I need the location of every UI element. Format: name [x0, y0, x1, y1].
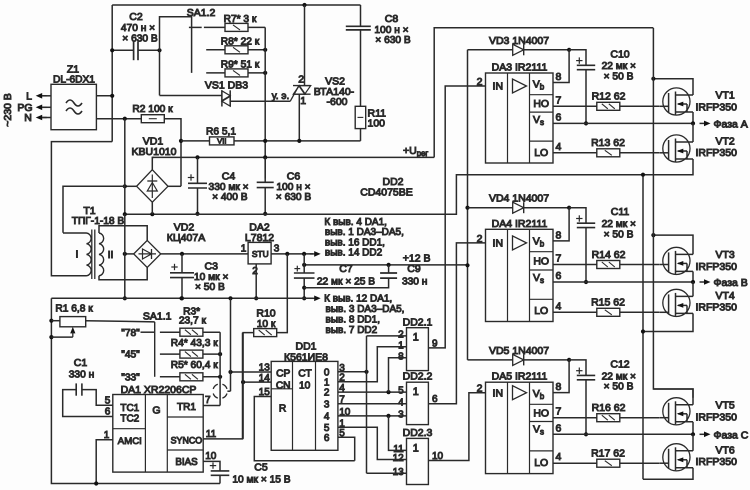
wire bridge left vertex — [125, 185, 137, 187]
resistor R7* 3k — [204, 26, 225, 28]
wire secondary top lead — [99, 226, 147, 241]
svg-text:VT3: VT3 — [716, 249, 735, 261]
node C7/C9 bottom link — [302, 286, 306, 290]
svg-text:CD4075BE: CD4075BE — [360, 187, 413, 199]
svg-text:22 мк ×: 22 мк × — [602, 371, 636, 382]
svg-text:1: 1 — [300, 95, 306, 107]
svg-text:3: 3 — [398, 410, 404, 421]
svg-text:выв. 7 DD2: выв. 7 DD2 — [326, 325, 378, 336]
node return rail / VT4 source — [641, 329, 645, 333]
svg-text:8: 8 — [556, 229, 562, 241]
wire out0 riser to DD2.1 pin2 and DD2.3 pin13 — [366, 336, 368, 473]
node C2 right — [157, 48, 161, 52]
svg-text:15: 15 — [259, 387, 271, 398]
svg-text:Фаза A: Фаза A — [714, 118, 748, 130]
svg-text:R17 62: R17 62 — [591, 448, 625, 460]
wire +Ureg DC bus — [152, 156, 434, 158]
svg-text:LO: LO — [534, 457, 548, 469]
svg-text:2: 2 — [252, 266, 258, 277]
node R8 bus — [263, 48, 267, 52]
svg-text:6: 6 — [556, 111, 562, 123]
svg-text:8: 8 — [556, 71, 562, 83]
svg-text:DD2.3: DD2.3 — [403, 427, 433, 439]
svg-text:"33": "33" — [121, 372, 140, 383]
svg-text:10: 10 — [205, 451, 217, 462]
node C12/Vs — [584, 432, 588, 436]
transistor VT3 IRFP350 high side — [663, 247, 690, 274]
node phase A — [691, 121, 695, 125]
capacitor C5 10uF 15V — [211, 470, 230, 472]
capacitor C11 22uF 50V — [569, 208, 586, 224]
wire out5 pin1 to DD2.3 pin12 — [338, 427, 407, 459]
wire out2 riser to DD2.1 pin8 — [389, 358, 407, 392]
svg-text:C1: C1 — [74, 357, 88, 369]
svg-text:2: 2 — [398, 330, 404, 341]
net arrow phase A — [700, 122, 708, 124]
svg-text:8: 8 — [556, 381, 562, 393]
node R6/triac — [297, 139, 301, 143]
svg-text:23,7 к: 23,7 к — [179, 315, 207, 326]
wire VT5 source to phase — [692, 422, 694, 435]
svg-text:R2 100 к: R2 100 к — [132, 104, 173, 115]
svg-text:× 630 В: × 630 В — [276, 192, 312, 203]
capacitor C10 22uF 50V — [569, 50, 586, 66]
svg-text:× 630 В: × 630 В — [375, 35, 411, 46]
svg-text:HO: HO — [533, 256, 549, 268]
svg-text:KBU1010: KBU1010 — [132, 146, 177, 158]
node VD3/Vb — [567, 48, 571, 52]
wire Vs line phase B — [553, 281, 693, 283]
wire source return rail — [642, 175, 644, 480]
svg-text:R15 62: R15 62 — [591, 297, 625, 309]
svg-text:C12: C12 — [610, 358, 629, 370]
node N-bus top — [123, 117, 127, 121]
svg-text:Фаза C: Фаза C — [714, 429, 749, 441]
svg-text:SA1.1: SA1.1 — [143, 311, 172, 323]
wire VT6 source to return — [643, 468, 693, 480]
transistor VT1 IRFP350 high side — [663, 88, 690, 115]
node out0 — [364, 370, 368, 374]
svg-text:2: 2 — [298, 74, 304, 86]
capacitor C12 22uF 50V — [569, 360, 586, 376]
transformer secondary II — [99, 233, 104, 276]
wire Z1 pin L arrow — [39, 95, 47, 97]
transistor VT2 IRFP350 low side — [663, 135, 690, 162]
wire test point to CP riser — [227, 390, 230, 392]
node C2 left — [110, 48, 114, 52]
wire out4 riser to DD2.3 pin11 — [389, 416, 407, 451]
node drain rail 4 — [651, 233, 655, 237]
wire R-select bus through test point — [219, 332, 221, 405]
svg-text:IN: IN — [493, 238, 504, 250]
svg-text:G: G — [152, 404, 160, 416]
svg-text:2: 2 — [477, 76, 483, 88]
wire primary bottom lead — [51, 275, 86, 277]
svg-text:C3: C3 — [205, 261, 219, 273]
wire N-bus lower vertical — [124, 214, 126, 298]
svg-text:10: 10 — [299, 380, 311, 391]
svg-text:100 н ×: 100 н × — [276, 182, 310, 193]
test point connector — [213, 384, 227, 398]
wire R2 right to bridge AC2 — [164, 119, 181, 187]
wire R11 bottom to R6 line — [360, 129, 362, 141]
node Z1 top output — [110, 94, 114, 98]
wire R10 left — [243, 333, 254, 439]
wire +12 feed riser for VD3-VD5 — [467, 50, 469, 360]
wire Vb pin8 riser — [553, 50, 569, 83]
wire CP riser — [230, 298, 232, 391]
svg-text:CT: CT — [298, 369, 312, 380]
wire VT1 drain — [653, 79, 693, 95]
svg-text:Фаза B: Фаза B — [714, 277, 748, 289]
component Z1 DL-6DX1 mains filter — [51, 84, 96, 129]
svg-text:4: 4 — [556, 451, 562, 463]
svg-text:5: 5 — [398, 386, 404, 397]
svg-text:BIAS: BIAS — [175, 457, 198, 468]
wire +Ureg riser to top — [434, 28, 653, 158]
node GND/CP riser — [228, 296, 232, 300]
wire out3 pin7 to DD2.2 pin4 — [338, 403, 407, 405]
svg-text:22 мк × 25 В: 22 мк × 25 В — [317, 277, 375, 288]
svg-text:VT5: VT5 — [716, 399, 735, 411]
wire VT4 source to return — [643, 313, 693, 331]
svg-text:R: R — [279, 404, 286, 415]
node top rail / triac riser — [302, 3, 306, 7]
wire secondary bottom lead — [99, 267, 147, 279]
wire VT1 source to phase — [692, 112, 694, 123]
wire DA2 gnd pin — [255, 264, 257, 298]
wire C1 right to pin5 — [82, 390, 113, 406]
svg-text:C10: C10 — [610, 48, 629, 60]
node +12 feed / VD4 — [465, 206, 469, 210]
wire SYNCO pin11 riser — [203, 333, 242, 439]
node GND/R3bus — [179, 296, 183, 300]
node VD5/Vb — [567, 358, 571, 362]
svg-text:12: 12 — [393, 453, 405, 464]
wire R-bus vertical x=265 — [264, 27, 266, 178]
wire drain rail right side — [653, 28, 693, 398]
svg-text:IRFP350: IRFP350 — [696, 261, 738, 273]
svg-text:6: 6 — [105, 407, 111, 418]
svg-text:330 н: 330 н — [69, 369, 94, 380]
svg-text:10 мк × 15 В: 10 мк × 15 В — [232, 474, 290, 485]
svg-text:IN: IN — [493, 81, 504, 93]
wire VD2 right to DA2 — [161, 253, 248, 255]
wire VT2 drain to phase — [692, 123, 694, 142]
svg-text:1: 1 — [241, 244, 247, 255]
svg-text:470 н ×: 470 н × — [121, 23, 155, 34]
wire C1 left to pin6 — [63, 390, 113, 417]
wire VT2 source to return — [643, 159, 693, 175]
svg-text:VT2: VT2 — [716, 136, 735, 148]
node out4 — [386, 414, 390, 418]
svg-text:TR1: TR1 — [177, 402, 196, 413]
triac VS2 BTA140-600 — [304, 5, 306, 86]
node drain rail 3 — [651, 77, 655, 81]
svg-text:× 630 В: × 630 В — [122, 34, 158, 45]
wire +12V line — [304, 264, 467, 266]
svg-text:2: 2 — [324, 388, 330, 399]
svg-text:~230 В: ~230 В — [2, 93, 14, 127]
svg-text:К выв. 12 DA1,: К выв. 12 DA1, — [324, 294, 392, 305]
wire CN pin14 — [243, 381, 271, 383]
node N-bus / VD1 — [123, 184, 127, 188]
svg-text:LO: LO — [534, 305, 548, 317]
node C3 GND — [180, 296, 184, 300]
svg-text:7: 7 — [556, 406, 562, 418]
svg-text:VS1 DB3: VS1 DB3 — [205, 79, 248, 91]
svg-text:"45": "45" — [121, 350, 140, 361]
svg-text:SYNCO: SYNCO — [171, 436, 203, 446]
node VD4/Vb — [567, 206, 571, 210]
svg-text:330 н: 330 н — [402, 277, 427, 288]
node +12 / C9 top — [387, 263, 391, 267]
svg-text:N: N — [24, 112, 32, 124]
svg-text:× 400 В: × 400 В — [212, 192, 248, 203]
svg-text:HO: HO — [533, 408, 549, 420]
wire VT3 drain — [653, 235, 693, 254]
svg-text:R1 6,8 к: R1 6,8 к — [55, 303, 93, 314]
capacitor C3 10uF 50V — [181, 254, 183, 273]
svg-text:R14 62: R14 62 — [592, 249, 626, 261]
capacitor C9 330n — [388, 265, 390, 273]
wire VT3 source to phase — [692, 271, 694, 282]
node C4 + — [195, 155, 199, 159]
svg-text:DD2.1: DD2.1 — [403, 317, 433, 329]
svg-text:T1: T1 — [83, 205, 95, 217]
wire out2 pin4 to DD2.2 pin5 — [338, 391, 407, 393]
svg-text:-600: -600 — [326, 96, 347, 108]
svg-text:VT1: VT1 — [716, 90, 735, 102]
node C10/Vs — [584, 121, 588, 125]
node DA2 out / C7 riser — [285, 252, 289, 256]
svg-text:22 мк ×: 22 мк × — [602, 61, 636, 72]
wire to TR1 pin7 — [203, 405, 220, 407]
resistor R8* 22k — [206, 49, 225, 51]
svg-text:R5* 60,4 к: R5* 60,4 к — [171, 360, 218, 371]
svg-text:II: II — [108, 249, 114, 261]
resistor R11 100 — [355, 106, 366, 128]
wire Z1 pin PG arrow — [39, 106, 47, 108]
svg-text:C7: C7 — [339, 263, 353, 275]
svg-text:13: 13 — [393, 467, 405, 478]
svg-text:STU: STU — [252, 249, 269, 259]
wire out4 pin10 to DD2.2 pin3 — [338, 415, 407, 417]
svg-text:VD4 1N4007: VD4 1N4007 — [489, 193, 549, 205]
wire R pin15 reset loop — [254, 397, 354, 461]
svg-text:× 50 В: × 50 В — [604, 72, 634, 83]
wire DD2.3 out to DA5 IN — [428, 393, 485, 461]
wire R10 right to +12 — [277, 254, 288, 333]
node R1 wiper — [49, 335, 53, 339]
svg-text:VD3 1N4007: VD3 1N4007 — [489, 35, 549, 47]
wire Vb pin8 riser — [553, 360, 569, 393]
svg-text:IRFP350: IRFP350 — [696, 411, 738, 423]
svg-text:1: 1 — [324, 377, 330, 388]
svg-text:2: 2 — [477, 233, 483, 245]
wire T1 primary top to N-bus — [63, 186, 125, 233]
svg-text:R16 62: R16 62 — [592, 402, 626, 414]
svg-text:7: 7 — [556, 253, 562, 265]
node C11/Vs — [584, 280, 588, 284]
node +12 feed / +12V line — [465, 263, 469, 267]
wire BIAS pin10 to C5 — [203, 461, 220, 471]
node bridge bottom — [150, 212, 154, 216]
svg-text:I: I — [76, 249, 79, 261]
wire bridge right vertex — [168, 185, 181, 187]
svg-text:R10: R10 — [256, 307, 275, 319]
svg-text:выв. 14 DD2: выв. 14 DD2 — [325, 248, 383, 259]
wire N-bus vertical — [124, 119, 126, 215]
wire left vertical to bottom rail — [51, 298, 220, 483]
svg-text:× 50 В: × 50 В — [604, 230, 634, 241]
wire left riser x=112 — [111, 5, 113, 142]
svg-text:7: 7 — [205, 395, 211, 406]
node phase B — [691, 280, 695, 284]
transformer core — [91, 230, 93, 280]
wire top rail — [112, 4, 360, 6]
svg-text:DA4 IR2111: DA4 IR2111 — [492, 218, 548, 230]
wire VT4 drain to phase — [692, 282, 694, 296]
svg-text:6: 6 — [324, 433, 330, 444]
net arrow +12V to pins — [310, 253, 318, 255]
svg-text:1: 1 — [413, 332, 419, 344]
node C4 - — [195, 212, 199, 216]
svg-text:выв. 3 DA3–DA5,: выв. 3 DA3–DA5, — [326, 304, 405, 315]
svg-text:DA5 IR2111: DA5 IR2111 — [492, 371, 548, 383]
svg-text:1: 1 — [413, 386, 419, 398]
node VD2/N-bus — [123, 252, 127, 256]
svg-text:IRFP350: IRFP350 — [696, 147, 738, 159]
svg-text:4: 4 — [324, 412, 330, 423]
svg-text:4: 4 — [556, 300, 562, 312]
wire Vb pin8 riser — [553, 208, 569, 241]
node N-bus/GND — [123, 296, 127, 300]
node R1 left — [49, 319, 53, 323]
svg-text:1: 1 — [104, 430, 110, 441]
svg-text:7: 7 — [556, 94, 562, 106]
net arrow phase B — [700, 281, 708, 283]
wire primary top lead — [63, 232, 87, 234]
node DA2 out / +12 branch — [302, 252, 306, 256]
wire DA2 output — [271, 253, 313, 255]
node DA2 gnd — [254, 296, 258, 300]
svg-text:3: 3 — [274, 244, 280, 255]
transistor VT5 IRFP350 high side — [663, 398, 690, 425]
svg-text:6: 6 — [556, 422, 562, 434]
svg-text:Z1: Z1 — [67, 64, 79, 76]
svg-text:TC1: TC1 — [120, 403, 139, 414]
svg-text:C11: C11 — [611, 206, 630, 218]
svg-text:IN: IN — [493, 387, 504, 399]
svg-text:DD2.2: DD2.2 — [403, 371, 433, 383]
node C3 top — [180, 252, 184, 256]
svg-text:R4* 43,3 к: R4* 43,3 к — [171, 338, 218, 349]
svg-text:× 50 В: × 50 В — [604, 382, 634, 393]
svg-text:КЦ407А: КЦ407А — [167, 232, 205, 244]
wire Z1 top output — [96, 95, 112, 97]
transistor VT6 IRFP350 low side — [663, 444, 690, 471]
svg-text:IRFP350: IRFP350 — [696, 301, 738, 313]
svg-text:2: 2 — [477, 383, 483, 395]
wire DD2.2 out to DA4 IN — [428, 243, 485, 404]
node C7 GND — [302, 296, 306, 300]
svg-text:C9: C9 — [407, 263, 421, 275]
net arrow phase C — [700, 433, 708, 435]
wire out0 pin3 — [338, 371, 367, 373]
svg-text:R9* 51 к: R9* 51 к — [221, 59, 260, 70]
svg-text:R13 62: R13 62 — [591, 137, 625, 149]
svg-text:IRFP350: IRFP350 — [696, 456, 738, 468]
wire diac to triac gate — [230, 100, 290, 102]
wire Z1 lower-left loop to T1 primary — [51, 142, 112, 276]
node R4/bus — [218, 352, 222, 356]
svg-text:6: 6 — [556, 270, 562, 282]
svg-text:CN: CN — [276, 380, 291, 391]
node C6/R-bus + — [263, 155, 267, 159]
node +12 / C7 top — [302, 263, 306, 267]
svg-text:DA3 IR2111: DA3 IR2111 — [492, 62, 548, 74]
svg-text:4: 4 — [556, 141, 562, 153]
svg-text:R12 62: R12 62 — [592, 91, 626, 103]
node R2/R6 junction — [179, 139, 183, 143]
wire CP pin13 — [231, 371, 272, 373]
capacitor C2 — [112, 49, 133, 51]
svg-text:"78": "78" — [121, 328, 140, 339]
svg-text:C8: C8 — [385, 13, 399, 25]
capacitor C7 22uF 25V — [303, 254, 305, 273]
wire Z1 pin N arrow — [39, 117, 47, 119]
wire Vs line phase A — [553, 122, 693, 124]
svg-text:C6: C6 — [287, 171, 301, 183]
svg-text:VD5 1N4007: VD5 1N4007 — [489, 345, 549, 357]
node R9 bus — [263, 71, 267, 75]
svg-text:3: 3 — [324, 399, 330, 410]
svg-text:C4: C4 — [222, 171, 236, 183]
svg-text:TC2: TC2 — [120, 413, 139, 424]
svg-text:8: 8 — [398, 351, 404, 362]
svg-text:IRFP350: IRFP350 — [696, 102, 738, 114]
wire pin1 AMCI to bottom rail — [96, 440, 113, 484]
svg-text:C5: C5 — [254, 461, 268, 473]
wire GND bus — [51, 297, 313, 299]
svg-text:100: 100 — [368, 118, 386, 130]
node R5/bus — [218, 375, 222, 379]
svg-text:1: 1 — [413, 442, 419, 454]
svg-text:22 мк ×: 22 мк × — [602, 219, 636, 230]
svg-text:VII: VII — [217, 137, 226, 146]
wire out6 pin5 reset — [338, 437, 355, 461]
node phase C — [691, 432, 695, 436]
svg-text:R7* 3 к: R7* 3 к — [224, 14, 257, 25]
node CN riser — [241, 380, 245, 384]
wire Z1 bottom output to R2 — [96, 118, 141, 120]
node out2 — [386, 390, 390, 394]
node CP riser — [228, 370, 232, 374]
svg-text:L: L — [26, 91, 32, 103]
node C6 - — [263, 212, 267, 216]
resistor R2 100k — [141, 115, 164, 123]
svg-text:DL-6DX1: DL-6DX1 — [53, 75, 95, 86]
svg-text:R8* 22 к: R8* 22 к — [221, 36, 260, 47]
wire Vs line phase C — [553, 433, 693, 435]
node minus rail / N-bus corner — [123, 212, 127, 216]
wire bridge top to +bus — [152, 157, 154, 169]
wire minus rail — [125, 175, 643, 215]
wire VT5 drain — [653, 389, 693, 405]
wire VT6 drain to phase — [692, 434, 694, 451]
svg-text:C2: C2 — [129, 11, 143, 23]
